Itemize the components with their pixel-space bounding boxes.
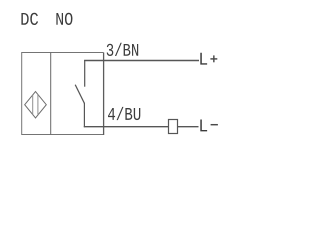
terminal L- minus sign [211,124,218,126]
label DC [21,13,38,25]
load resistor [169,120,178,134]
sensor body outline [22,53,104,135]
switch S1 bottom lead [83,103,85,127]
terminal L+ plus sign [210,58,217,60]
diamond inner line left [32,95,34,115]
proximity sensor diamond [25,92,47,118]
switch S1 blade (NO contact) [75,85,84,104]
label 4/BU [108,107,140,120]
label 3/BN [107,43,139,56]
wire load to L- [178,126,199,128]
label NO [56,13,72,25]
wire 3/BN to L+ [84,60,199,62]
terminal L+ letter [200,53,207,65]
sensor body right edge [103,53,105,136]
sensor body divider [50,53,52,135]
diamond inner line right [37,94,39,115]
wire 4/BU to load [84,126,169,128]
terminal L- letter [200,120,207,132]
switch S1 top lead [84,60,86,87]
